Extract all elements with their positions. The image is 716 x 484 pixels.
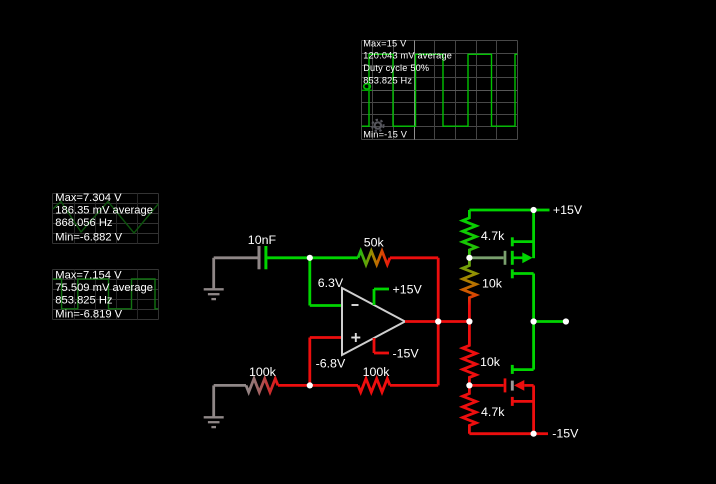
- svg-text:Max=7.154 V: Max=7.154 V: [55, 270, 122, 282]
- svg-text:120.043 mV average: 120.043 mV average: [363, 51, 452, 61]
- svg-text:75.509 mV average: 75.509 mV average: [55, 282, 153, 294]
- svg-text:186.35 mV average: 186.35 mV average: [55, 205, 153, 217]
- svg-text:10nF: 10nF: [248, 233, 277, 247]
- svg-text:Min=-6.819 V: Min=-6.819 V: [55, 308, 122, 320]
- svg-text:-15V: -15V: [393, 346, 420, 360]
- svg-text:868.056 Hz: 868.056 Hz: [55, 217, 113, 229]
- svg-text:Duty cycle 50%: Duty cycle 50%: [363, 63, 429, 73]
- svg-text:Min=-15 V: Min=-15 V: [363, 129, 408, 139]
- svg-text:50k: 50k: [364, 236, 385, 250]
- svg-text:-6.8V: -6.8V: [316, 357, 346, 371]
- svg-text:100k: 100k: [363, 365, 391, 379]
- svg-text:Max=15 V: Max=15 V: [363, 38, 407, 48]
- svg-text:10k: 10k: [482, 277, 503, 291]
- svg-text:4.7k: 4.7k: [481, 405, 505, 419]
- svg-text:Max=7.304 V: Max=7.304 V: [55, 192, 122, 204]
- svg-text:+15V: +15V: [393, 282, 423, 296]
- svg-text:4.7k: 4.7k: [481, 229, 505, 243]
- svg-text:853.825 Hz: 853.825 Hz: [55, 294, 113, 306]
- svg-text:100k: 100k: [249, 365, 277, 379]
- svg-text:Min=-6.882 V: Min=-6.882 V: [55, 232, 122, 244]
- svg-text:+15V: +15V: [553, 203, 583, 217]
- svg-text:853.825 Hz: 853.825 Hz: [363, 75, 412, 85]
- svg-text:6.3V: 6.3V: [318, 276, 344, 290]
- svg-text:10k: 10k: [480, 355, 501, 369]
- svg-text:-15V: -15V: [552, 426, 579, 440]
